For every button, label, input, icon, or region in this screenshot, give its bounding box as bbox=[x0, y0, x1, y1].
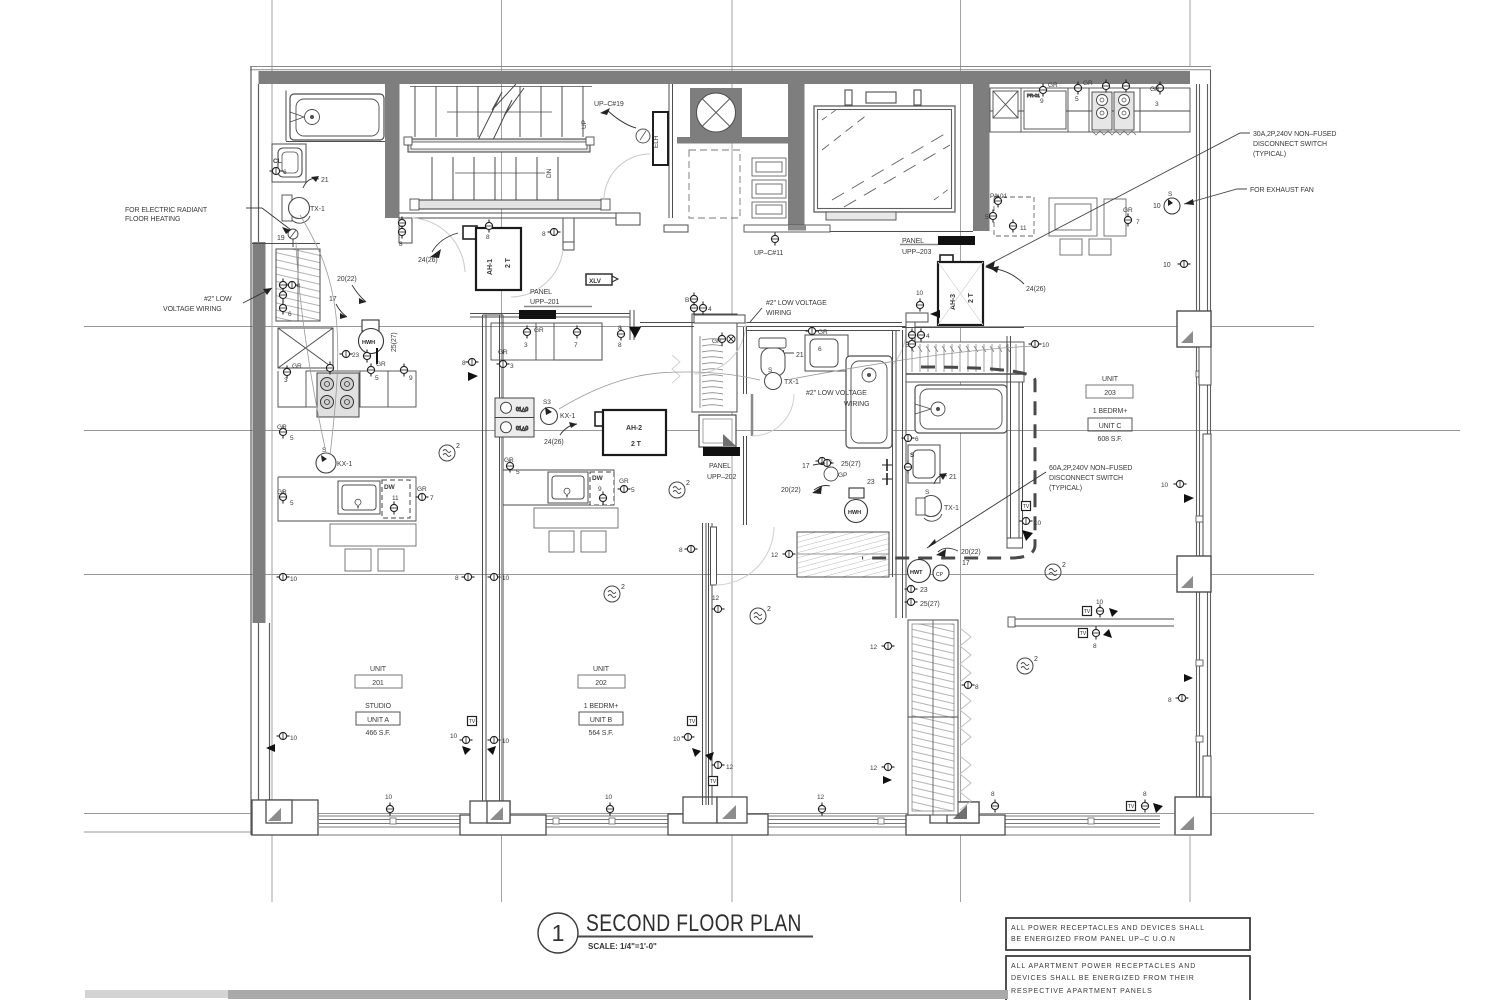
svg-text:AH-3: AH-3 bbox=[950, 294, 957, 310]
svg-text:10: 10 bbox=[1163, 262, 1171, 269]
party wall 202 side rcp 10 bbox=[488, 573, 501, 580]
elevator lobby shelves bbox=[752, 158, 786, 218]
right wall bottom corner pier bbox=[1175, 756, 1211, 835]
left wall rcp 5 (y437) bbox=[279, 426, 286, 439]
svg-text:PANEL: PANEL bbox=[709, 463, 731, 470]
switch wire 202 bbox=[559, 372, 760, 409]
left wall rcp 5 (y500) bbox=[279, 491, 286, 504]
unit 202 TV bbox=[688, 717, 697, 726]
stairwell wall stubs below landing bbox=[399, 213, 640, 250]
unit 202 kitchen lower counter bbox=[503, 470, 614, 505]
unit 203 toilet TX-1 bbox=[916, 496, 942, 522]
unit 203 living table bbox=[1049, 198, 1126, 255]
30A leader diagonal bbox=[986, 133, 1250, 266]
10 rcp right of closet bbox=[1029, 340, 1042, 347]
svg-text:25(27): 25(27) bbox=[391, 332, 398, 352]
svg-text:PR-01: PR-01 bbox=[1027, 93, 1040, 98]
svg-text:HWH: HWH bbox=[362, 340, 375, 346]
unit 201 toilet TX-1 bbox=[282, 195, 310, 223]
svg-text:12: 12 bbox=[726, 764, 734, 771]
svg-text:24(26): 24(26) bbox=[1026, 286, 1046, 293]
svg-text:21: 21 bbox=[796, 352, 804, 359]
bottom pier at grid B bbox=[460, 801, 546, 835]
svg-text:11: 11 bbox=[392, 495, 399, 502]
svg-text:GR: GR bbox=[1083, 80, 1093, 87]
unit 201 kitchen lower counter bbox=[278, 477, 416, 521]
bath receptacle 6 bbox=[270, 167, 283, 174]
sc2 corridor bbox=[604, 584, 625, 602]
svg-text:TX-1: TX-1 bbox=[310, 206, 325, 213]
exhaust fan circle bbox=[1164, 198, 1180, 214]
svg-text:6: 6 bbox=[818, 346, 822, 353]
svg-text:5: 5 bbox=[375, 375, 379, 382]
23 / 25(27) labels bbox=[905, 585, 918, 592]
svg-text:3: 3 bbox=[1155, 101, 1159, 108]
ELH box bbox=[653, 112, 668, 165]
switch wire 201b bbox=[300, 215, 338, 455]
svg-text:5: 5 bbox=[290, 435, 294, 442]
svg-text:8: 8 bbox=[991, 791, 995, 798]
tub south wall bbox=[286, 141, 385, 143]
panel UPP-201 black box bbox=[519, 310, 556, 319]
svg-text:GR: GR bbox=[277, 424, 287, 431]
unit 202 HWH bbox=[845, 488, 868, 523]
svg-text:12: 12 bbox=[870, 765, 878, 772]
svg-text:8: 8 bbox=[462, 360, 466, 367]
bath 202 door leaf bbox=[751, 394, 754, 436]
svg-text:25(27): 25(27) bbox=[920, 601, 940, 608]
unit 202 bath north wall bbox=[746, 330, 900, 332]
svg-text:UNIT A: UNIT A bbox=[367, 717, 389, 724]
svg-text:10: 10 bbox=[673, 736, 681, 743]
svg-text:FLOOR HEATING: FLOOR HEATING bbox=[125, 216, 180, 223]
svg-text:12: 12 bbox=[712, 595, 720, 602]
svg-text:UPP–202: UPP–202 bbox=[707, 474, 736, 481]
unit 201 kitchen shaft box bbox=[278, 328, 333, 368]
svg-text:XLV: XLV bbox=[589, 278, 602, 285]
svg-text:GR: GR bbox=[818, 329, 828, 336]
unit 202 wardrobe closet bbox=[692, 314, 737, 412]
svg-text:HWT: HWT bbox=[910, 570, 923, 576]
corridor stub wall by AH-3 bbox=[906, 313, 928, 346]
bottom window wall band lines bbox=[251, 816, 1211, 835]
XLV chime bbox=[586, 274, 612, 285]
svg-text:10: 10 bbox=[502, 575, 510, 582]
top exterior wall thin double line bbox=[250, 67, 1211, 70]
svg-text:B: B bbox=[685, 297, 689, 304]
corridor south wall bbox=[640, 323, 906, 327]
svg-text:FOR ELECTRIC RADIANT: FOR ELECTRIC RADIANT bbox=[125, 207, 208, 214]
switch wire 201 bbox=[296, 242, 326, 452]
svg-text:KX-1: KX-1 bbox=[560, 413, 575, 420]
svg-text:GR: GR bbox=[417, 486, 427, 493]
corridor rcp 8 (left) bbox=[398, 217, 405, 230]
grid line 2 horizontal bbox=[84, 430, 1460, 432]
unit 202 rcp left of counter bbox=[506, 460, 513, 473]
closet shelf line bedroom 203 bbox=[1012, 619, 1174, 626]
svg-text:5: 5 bbox=[631, 487, 635, 494]
unit 203 tub bbox=[915, 385, 1007, 433]
gray pier between lobby and elevator bbox=[788, 84, 805, 231]
svg-text:UPP–201: UPP–201 bbox=[530, 299, 559, 306]
svg-text:7: 7 bbox=[574, 342, 578, 349]
left exterior wall gray segment bbox=[253, 242, 266, 623]
svg-text:FOR EXHAUST FAN: FOR EXHAUST FAN bbox=[1250, 187, 1314, 194]
stair up-arrow break lines bbox=[478, 84, 524, 142]
svg-text:BE ENERGIZED FROM PANEL UP–C U: BE ENERGIZED FROM PANEL UP–C U.O.N bbox=[1011, 936, 1176, 943]
unit 203 bath north wall bbox=[902, 327, 1024, 329]
unit 203 entry door arc bbox=[854, 330, 906, 382]
svg-text:6: 6 bbox=[288, 311, 292, 318]
svg-text:GR: GR bbox=[504, 457, 514, 464]
svg-text:5: 5 bbox=[290, 500, 294, 507]
grid line A vertical bbox=[271, 0, 273, 902]
bottom pier at grid C bbox=[668, 797, 768, 835]
bottom pier at grid D (wall 202/203 foot) bbox=[906, 802, 1005, 835]
dashed chute below vent shaft bbox=[689, 150, 740, 218]
svg-text:GR: GR bbox=[712, 338, 722, 345]
grid line D vertical bbox=[960, 0, 962, 902]
vent shaft with circle-X bbox=[690, 88, 742, 138]
unit 202 tub (vertical) bbox=[846, 356, 892, 448]
unit 202 kitchen counters bbox=[491, 323, 602, 360]
title circle 1 bbox=[538, 913, 578, 953]
unit 202 toilet TX-1 bbox=[759, 338, 786, 390]
svg-text:24(26): 24(26) bbox=[418, 257, 438, 264]
grid line E vertical bbox=[1189, 0, 1191, 66]
bottom page strip dark bbox=[228, 990, 1008, 999]
kitchen 203 prep sink with X bbox=[993, 91, 1018, 118]
svg-text:10: 10 bbox=[1034, 520, 1042, 527]
svg-text:10: 10 bbox=[502, 738, 510, 745]
unit 203 bedroom closet (tall) bbox=[908, 620, 958, 815]
AH-2 unit bbox=[595, 410, 666, 455]
sc2 unit201 bbox=[439, 443, 460, 461]
panel UPP-203 black box bbox=[938, 236, 975, 245]
elevator door jambs bbox=[845, 90, 921, 105]
unit 203 kitchen counter bbox=[990, 88, 1190, 132]
svg-text:3: 3 bbox=[510, 363, 514, 370]
svg-text:3: 3 bbox=[284, 377, 288, 384]
party wall 201/202 bbox=[483, 315, 504, 801]
rcp 8 at closet mid bbox=[962, 681, 975, 688]
AH-1 unit bbox=[463, 226, 521, 290]
svg-text:10: 10 bbox=[1161, 482, 1169, 489]
svg-text:4: 4 bbox=[708, 306, 712, 313]
svg-text:1 BEDRM+: 1 BEDRM+ bbox=[584, 703, 618, 710]
svg-text:8: 8 bbox=[1143, 791, 1147, 798]
stair lower flight treads bbox=[432, 157, 558, 200]
svg-text:203: 203 bbox=[1104, 390, 1116, 397]
unit 203 HWT bbox=[908, 560, 950, 583]
UNIT 203 labels bbox=[1086, 376, 1133, 443]
unit 203 closet with hangers bbox=[906, 342, 1024, 382]
unit 202 bath south closet bbox=[797, 532, 889, 577]
unit 202 closet bifold chevrons bbox=[672, 355, 680, 383]
unit 203 interior wall east of bath bbox=[1007, 336, 1023, 548]
svg-text:23: 23 bbox=[920, 587, 928, 594]
svg-text:WIRING: WIRING bbox=[766, 310, 791, 317]
svg-text:01△0: 01△0 bbox=[516, 426, 528, 432]
stairwell west gray wall bbox=[385, 84, 400, 218]
window mullion marks bbox=[390, 818, 1094, 824]
svg-text:30A,2P,240V NON–FUSED: 30A,2P,240V NON–FUSED bbox=[1253, 131, 1336, 138]
svg-text:23: 23 bbox=[867, 479, 875, 486]
right wall pier at grid 1 bbox=[1177, 311, 1211, 385]
left wall rcp 10 upper bbox=[277, 573, 290, 580]
svg-text:UPP–203: UPP–203 bbox=[902, 249, 931, 256]
unit 202 kitchen north wall bbox=[470, 310, 634, 340]
hvac dashed boundary bbox=[862, 367, 1035, 558]
sc2 unit203 mid bbox=[1045, 562, 1066, 580]
unit 201 entry closet hatched bbox=[276, 249, 320, 321]
svg-text:#2" LOW: #2" LOW bbox=[204, 296, 232, 303]
left wall rcp 10 lower bbox=[277, 732, 290, 739]
svg-text:GR: GR bbox=[292, 363, 302, 370]
svg-text:60A,2P,240V NON–FUSED: 60A,2P,240V NON–FUSED bbox=[1049, 465, 1132, 472]
svg-text:5: 5 bbox=[516, 469, 520, 476]
svg-text:S3: S3 bbox=[543, 399, 551, 406]
svg-text:2 T: 2 T bbox=[968, 292, 975, 303]
svg-text:10: 10 bbox=[450, 733, 458, 740]
unit 202 DW bbox=[590, 472, 614, 505]
corridor east wall lines by ELH bbox=[664, 84, 688, 232]
svg-text:ELH: ELH bbox=[653, 135, 660, 148]
svg-text:TX-1: TX-1 bbox=[944, 505, 959, 512]
unit 202 kitchen receptacles bbox=[523, 325, 641, 349]
svg-text:2 T: 2 T bbox=[631, 441, 642, 448]
svg-text:8: 8 bbox=[399, 241, 403, 248]
unit 201 TV bbox=[468, 717, 477, 726]
svg-text:466 S.F.: 466 S.F. bbox=[366, 730, 391, 737]
svg-text:KX-1: KX-1 bbox=[337, 461, 352, 468]
unit 201 bath lavatory counter bbox=[272, 144, 306, 182]
svg-text:UP: UP bbox=[581, 120, 588, 129]
svg-text:202: 202 bbox=[595, 680, 607, 687]
grid line C vertical bbox=[731, 0, 733, 902]
unit 201 dining table bbox=[330, 524, 416, 571]
svg-text:201: 201 bbox=[372, 680, 384, 687]
svg-text:RESPECTIVE APARTMENT PANELS: RESPECTIVE APARTMENT PANELS bbox=[1011, 988, 1153, 995]
svg-text:UNIT C: UNIT C bbox=[1099, 423, 1122, 430]
svg-text:DEVICES SHALL BE ENERGIZED FRO: DEVICES SHALL BE ENERGIZED FROM THEIR bbox=[1011, 975, 1195, 982]
svg-text:8: 8 bbox=[1168, 697, 1172, 704]
svg-text:DN: DN bbox=[546, 168, 553, 178]
svg-text:12: 12 bbox=[771, 552, 779, 559]
kitchen 203 sink cabinet bbox=[1024, 91, 1066, 129]
svg-text:CL: CL bbox=[273, 158, 282, 165]
svg-text:10: 10 bbox=[916, 290, 924, 297]
svg-text:GR: GR bbox=[376, 361, 386, 368]
right wall pier at grid 3 bbox=[1177, 434, 1211, 592]
unit 202 bath west wall bbox=[744, 327, 747, 525]
svg-text:GR: GR bbox=[534, 327, 544, 334]
svg-text:AH-1: AH-1 bbox=[487, 259, 494, 275]
unit 201 bathroom tub bbox=[290, 94, 384, 140]
svg-text:21: 21 bbox=[949, 474, 957, 481]
svg-text:8: 8 bbox=[486, 234, 490, 241]
svg-text:5: 5 bbox=[1075, 96, 1079, 103]
svg-text:25(27): 25(27) bbox=[841, 461, 861, 468]
unit 202 sink bbox=[548, 472, 588, 503]
bath 201 door wall + arc bbox=[252, 243, 320, 245]
svg-text:SECOND FLOOR PLAN: SECOND FLOOR PLAN bbox=[586, 909, 802, 937]
svg-text:STUDIO: STUDIO bbox=[365, 703, 392, 710]
svg-text:B: B bbox=[905, 342, 909, 349]
PANEL UPP-202 bbox=[699, 415, 736, 447]
svg-text:8: 8 bbox=[1093, 643, 1097, 650]
svg-text:VOLTAGE WIRING: VOLTAGE WIRING bbox=[163, 306, 222, 313]
wall 202bath/203 bbox=[893, 330, 907, 618]
svg-text:GR: GR bbox=[1150, 86, 1160, 93]
svg-text:GP: GP bbox=[838, 472, 847, 479]
svg-text:9: 9 bbox=[409, 375, 413, 382]
svg-text:UNIT: UNIT bbox=[593, 666, 610, 673]
svg-text:ALL APARTMENT POWER RECEPTACLE: ALL APARTMENT POWER RECEPTACLES AND bbox=[1011, 963, 1196, 970]
bottom page strip light bbox=[85, 990, 228, 998]
svg-text:17: 17 bbox=[962, 560, 970, 567]
svg-text:#2" LOW VOLTAGE: #2" LOW VOLTAGE bbox=[806, 390, 867, 397]
unit 202 bath sink bbox=[805, 335, 848, 371]
elevator sill bbox=[826, 212, 896, 220]
door leaf 202 bedroom bbox=[711, 527, 717, 585]
unit 203 bath sink bbox=[908, 445, 940, 483]
svg-text:UP–C#19: UP–C#19 bbox=[594, 101, 624, 108]
svg-text:GR: GR bbox=[619, 478, 629, 485]
svg-text:ALL POWER RECEPTACLES AND DEVI: ALL POWER RECEPTACLES AND DEVICES SHALL bbox=[1011, 925, 1205, 932]
unit 202 dining table bbox=[534, 508, 618, 552]
svg-text:9: 9 bbox=[598, 486, 602, 493]
svg-text:10: 10 bbox=[605, 794, 613, 801]
kitchen 203 range burners bbox=[1092, 92, 1136, 135]
svg-text:7: 7 bbox=[1136, 219, 1140, 226]
stair bottom landing bar bbox=[399, 199, 640, 218]
svg-text:1 BEDRM+: 1 BEDRM+ bbox=[1093, 408, 1127, 415]
kitchen 203 island dashed bbox=[994, 197, 1034, 236]
unit 202 entry door bbox=[694, 315, 745, 323]
svg-text:20(22): 20(22) bbox=[337, 276, 357, 283]
top exterior wall gray band bbox=[259, 71, 1191, 84]
svg-text:8: 8 bbox=[455, 575, 459, 582]
kitchen 201 top receptacles bbox=[283, 361, 413, 384]
grid line 4 horizontal bbox=[84, 813, 1314, 815]
unit 201 range bbox=[317, 373, 359, 417]
elevator lobby south wall bbox=[830, 231, 973, 233]
svg-text:7: 7 bbox=[430, 495, 434, 502]
svg-text:10: 10 bbox=[1153, 203, 1161, 210]
svg-text:8: 8 bbox=[975, 684, 979, 691]
rcp 7 below living table bbox=[1124, 214, 1131, 227]
svg-text:10: 10 bbox=[385, 794, 393, 801]
svg-text:UNIT: UNIT bbox=[1102, 376, 1119, 383]
svg-text:21: 21 bbox=[321, 177, 329, 184]
svg-text:608 S.F.: 608 S.F. bbox=[1098, 436, 1123, 443]
svg-text:5: 5 bbox=[985, 214, 989, 221]
svg-text:23: 23 bbox=[352, 352, 360, 359]
svg-text:17: 17 bbox=[802, 463, 810, 470]
UNIT 202 labels bbox=[578, 666, 625, 737]
closet bifold door zigzag bbox=[960, 628, 971, 810]
svg-text:WIRING: WIRING bbox=[844, 401, 869, 408]
23 label with rcp bbox=[340, 350, 353, 357]
sc2 bedroom 203 bbox=[1017, 656, 1038, 674]
svg-text:01△0: 01△0 bbox=[516, 407, 528, 413]
svg-text:(TYPICAL): (TYPICAL) bbox=[1049, 485, 1082, 492]
unit 202 W/D stack bbox=[495, 398, 534, 437]
svg-text:6: 6 bbox=[283, 169, 287, 176]
svg-text:PANEL: PANEL bbox=[530, 289, 552, 296]
sc2 unit202 kitchen bbox=[669, 480, 690, 498]
svg-text:SCALE: 1/4"=1'-0": SCALE: 1/4"=1'-0" bbox=[588, 942, 657, 951]
svg-text:12: 12 bbox=[870, 644, 878, 651]
svg-text:10: 10 bbox=[290, 576, 298, 583]
svg-text:HWH: HWH bbox=[848, 510, 861, 516]
svg-text:DISCONNECT SWITCH: DISCONNECT SWITCH bbox=[1049, 475, 1123, 482]
low voltage rcp pair under corridor bbox=[712, 333, 735, 346]
stair upper flight treads bbox=[410, 86, 592, 137]
unit 201 KX-1 fan bbox=[316, 453, 336, 473]
svg-text:DW: DW bbox=[592, 475, 604, 482]
TV + 8 on wall right of bath bbox=[1022, 502, 1031, 511]
left wall receptacles group bbox=[279, 279, 301, 319]
svg-text:(TYPICAL): (TYPICAL) bbox=[1253, 151, 1286, 158]
svg-text:2 T: 2 T bbox=[505, 257, 512, 268]
svg-text:564 S.F.: 564 S.F. bbox=[589, 730, 614, 737]
svg-text:CP: CP bbox=[936, 572, 944, 578]
closet 202 receptacles top bbox=[685, 293, 712, 315]
svg-text:12: 12 bbox=[817, 794, 825, 801]
svg-text:19: 19 bbox=[277, 235, 285, 242]
kitchen 203 top receptacle row bbox=[1039, 80, 1163, 109]
svg-text:UP–C#11: UP–C#11 bbox=[754, 250, 783, 257]
svg-text:1: 1 bbox=[552, 920, 565, 946]
unit 202 S3 switch circle bbox=[541, 408, 558, 425]
svg-text:10: 10 bbox=[1042, 342, 1050, 349]
left exterior wall lines bbox=[251, 67, 270, 836]
svg-text:PA-01: PA-01 bbox=[990, 193, 1008, 200]
svg-text:3: 3 bbox=[524, 342, 528, 349]
UP-C#11 label bbox=[771, 233, 778, 246]
right exterior wall double line bbox=[1197, 70, 1211, 835]
party wall 202/203 bbox=[703, 523, 713, 805]
grid line 1 horizontal bbox=[84, 326, 1314, 328]
svg-text:8: 8 bbox=[679, 547, 683, 554]
svg-text:DISCONNECT SWITCH: DISCONNECT SWITCH bbox=[1253, 141, 1327, 148]
unit 202 GP pump circle bbox=[824, 467, 838, 481]
unit 201 DW bbox=[382, 480, 410, 518]
unit 201 HWH bbox=[359, 320, 384, 354]
stair middle landing handrail bbox=[404, 137, 594, 152]
svg-text:GR: GR bbox=[498, 349, 508, 356]
svg-text:GR: GR bbox=[1123, 207, 1133, 214]
circle symbol left of ELH bbox=[636, 129, 650, 143]
grid line B vertical bbox=[501, 0, 503, 902]
elevator cab bbox=[814, 106, 955, 212]
svg-text:20(22): 20(22) bbox=[781, 487, 801, 494]
svg-text:UNIT: UNIT bbox=[370, 666, 387, 673]
unit 201 kitchen counter outline bbox=[278, 371, 416, 407]
svg-text:24(26): 24(26) bbox=[544, 439, 564, 446]
elevator east gray pier bbox=[973, 84, 990, 231]
svg-text:DW: DW bbox=[384, 484, 396, 491]
bottom-left corner pier bbox=[252, 800, 318, 835]
UNIT 201 labels bbox=[355, 666, 402, 737]
note box 1 bbox=[1006, 918, 1250, 950]
svg-text:10: 10 bbox=[290, 735, 298, 742]
svg-text:8: 8 bbox=[618, 342, 622, 349]
unit 201 sink bbox=[338, 481, 380, 514]
svg-text:GR: GR bbox=[277, 489, 287, 496]
